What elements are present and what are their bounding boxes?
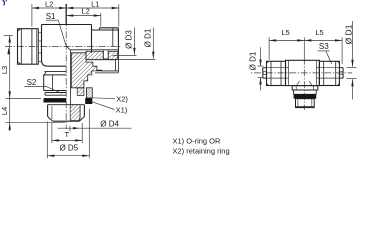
left nut: [267, 61, 286, 85]
label Ø D4 with leader arrow: [58, 119, 132, 131]
label S1 with leader: [46, 12, 66, 46]
dimension L3 (vertical left): [0, 36, 13, 99]
label Ø D1 with down arrow (left view): [109, 28, 155, 60]
stud wall section (hatched): [70, 105, 80, 121]
left port (male cone end with nut): [18, 29, 42, 64]
svg-text:Ø D5: Ø D5: [59, 143, 78, 152]
thread relief ticks between port and body: [38, 32, 41, 34]
svg-text:L5: L5: [315, 28, 323, 37]
right port (tube connection, half sectioned): [66, 28, 118, 60]
sectioned port lower wall right of tube slot (hatched): [108, 51, 118, 59]
svg-text:Ø D1: Ø D1: [144, 28, 153, 47]
left tube stub: [263, 68, 286, 78]
svg-text:X2): X2): [116, 94, 128, 103]
dimension L5 (left): [269, 28, 304, 60]
collar: [292, 86, 318, 90]
dimension L2 (second row): [66, 6, 101, 26]
svg-text:Ø D4: Ø D4: [100, 119, 119, 128]
labels X2) X1) with leaders: [92, 94, 128, 114]
dimension L2 (left top): [32, 0, 66, 27]
right tube stub: [319, 68, 343, 78]
svg-text:L2: L2: [45, 0, 53, 8]
svg-text:X1) O-ring OR: X1) O-ring OR: [173, 136, 222, 145]
horizontal centerline: [251, 72, 353, 74]
dimension L1 (right top): [66, 0, 119, 27]
svg-text:S3: S3: [319, 42, 329, 51]
port nut bottom lines: [86, 60, 118, 73]
retaining ring section (hatched, X2): [86, 88, 92, 98]
washer under flange: [45, 93, 66, 96]
dimension Ø D5: [47, 109, 89, 158]
threaded stub: [296, 99, 315, 108]
horizontal centerline: [5, 46, 122, 48]
label Ø D1 (right view, right side) with arrows: [343, 21, 356, 100]
dimension T: [52, 123, 82, 143]
O-ring dark band: [294, 94, 317, 98]
vertical branch centerline: [65, 4, 67, 25]
stud with thread (bottom branch): [48, 105, 85, 122]
O-ring section (dark, X1): [85, 98, 92, 104]
svg-text:T: T: [65, 130, 70, 139]
svg-text:X1): X1): [116, 106, 128, 115]
label Ø D3 with down arrow: [113, 28, 137, 56]
label S3 with leader: [318, 42, 332, 64]
vertical branch centerline: [303, 37, 305, 60]
sectioned port lower wall left of tube slot (hatched): [86, 51, 103, 59]
dimension L4 (vertical left, lower): [0, 98, 65, 131]
dimension L5 (right): [304, 28, 342, 64]
washer: [294, 90, 317, 94]
body block (right view): [286, 60, 320, 85]
svg-text:S1: S1: [46, 12, 56, 21]
O-ring dark band (outside view): [44, 98, 67, 102]
svg-text:L3: L3: [0, 66, 9, 74]
svg-text:L5: L5: [281, 28, 289, 37]
label Ø D1 (right view, left side) with arrows: [248, 47, 263, 90]
bottom stud assembly (right view): [292, 86, 318, 108]
svg-text:S2: S2: [27, 78, 37, 87]
svg-text:L1: L1: [91, 0, 99, 8]
right nut: [319, 61, 339, 85]
svg-text:Ø D1: Ø D1: [248, 51, 257, 70]
svg-text:L2: L2: [81, 6, 89, 15]
svg-text:Ø D3: Ø D3: [124, 30, 133, 49]
bore wall line: [70, 50, 72, 104]
label S2 with leader: [24, 78, 61, 93]
body block: [42, 25, 92, 72]
sectioned body lower-right with thread staircase (hatched): [71, 53, 101, 88]
tube end slot (white): [103, 51, 108, 59]
flange wall hatch next to retaining ring: [77, 88, 84, 96]
lower hex flange (outside view, left half): [44, 72, 66, 91]
svg-text:L4: L4: [0, 107, 9, 115]
cropped colored logo fragment top-left: [3, 0, 8, 6]
svg-text:Ø D1: Ø D1: [343, 24, 353, 44]
svg-text:X2) retaining ring: X2) retaining ring: [173, 147, 230, 156]
